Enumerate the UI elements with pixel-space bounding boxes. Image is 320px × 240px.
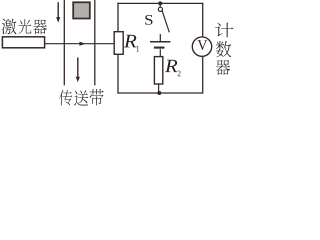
wire left (lower segment) — [117, 54, 119, 93]
motion arrow (on belt, downward) — [76, 57, 80, 82]
laser beam wire with arrow — [45, 42, 114, 46]
label 计数器 (counter) — [215, 23, 233, 75]
label R1 — [124, 35, 139, 52]
junction dot bottom — [157, 91, 161, 95]
wire right (lower segment) — [202, 56, 204, 93]
label R2 — [165, 60, 181, 76]
switch S: blade (open) — [162, 11, 169, 32]
wire R2 to bottom — [158, 84, 160, 93]
switch S: node dot — [158, 1, 162, 5]
switch S: stub — [159, 3, 161, 7]
photoresistor R1 — [114, 32, 123, 55]
conveyor belt left edge — [63, 0, 65, 85]
wire right (upper segment) — [202, 3, 204, 37]
label 传送带 (conveyor belt) — [59, 89, 104, 106]
conveyor belt right edge — [94, 0, 96, 85]
battery: top lead — [159, 34, 161, 42]
wire top — [117, 2, 203, 4]
label 激光器 (laser) — [2, 19, 47, 34]
wire left (upper segment) — [117, 3, 119, 32]
laser box — [2, 37, 44, 48]
wire bottom — [117, 92, 203, 94]
switch S: hinge circle — [158, 7, 162, 11]
voltmeter V — [192, 37, 211, 56]
resistor R2 — [154, 57, 162, 84]
object on belt (gray square) — [73, 2, 90, 18]
battery: short plate (-) — [154, 47, 165, 49]
battery: bottom lead — [159, 49, 161, 56]
motion arrow (top left, downward) — [56, 2, 60, 22]
battery: long plate (+) — [150, 41, 170, 43]
label S — [145, 15, 152, 25]
